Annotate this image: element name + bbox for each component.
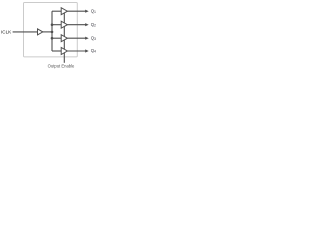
node ICLK input wire (13, 31, 38, 33)
wire buffer output to clock bus (43, 31, 52, 33)
wire output Q2 (67, 24, 85, 26)
svg-text:Q2: Q2 (91, 22, 96, 28)
IC boundary box (24, 3, 78, 57)
wire branch row 3 (52, 37, 61, 39)
wire branch row 2 (52, 24, 61, 26)
wire branch row 1 (52, 10, 61, 12)
arrowhead Q4 (85, 49, 89, 52)
svg-text:Output Enable: Output Enable (48, 63, 75, 68)
output buffer U3 row 2 (61, 21, 67, 28)
wire output Q3 (67, 37, 85, 39)
junction at row 3 (51, 37, 54, 40)
output buffer U2 row 1 (61, 8, 67, 15)
op-amp input buffer U1 (38, 29, 43, 35)
arrowhead Q2 (85, 23, 89, 26)
wire output Q1 (67, 10, 85, 12)
output buffer U5 row 4 (61, 48, 67, 55)
svg-text:Q4: Q4 (91, 48, 96, 54)
wire clock distribution vertical bus (51, 11, 53, 51)
svg-text:Q3: Q3 (91, 35, 96, 41)
svg-text:ICLK: ICLK (1, 30, 12, 35)
arrowhead Q3 (85, 37, 89, 40)
junction at row 2 (51, 23, 54, 26)
arrowhead Q1 (85, 10, 89, 13)
wire branch row 4 (52, 50, 61, 52)
svg-text:Q1: Q1 (91, 8, 96, 14)
junction at input tap (51, 31, 54, 34)
wire output Q4 (67, 50, 85, 52)
output enable net (vertical bus) (63, 13, 65, 63)
output buffer U4 row 3 (61, 35, 67, 42)
